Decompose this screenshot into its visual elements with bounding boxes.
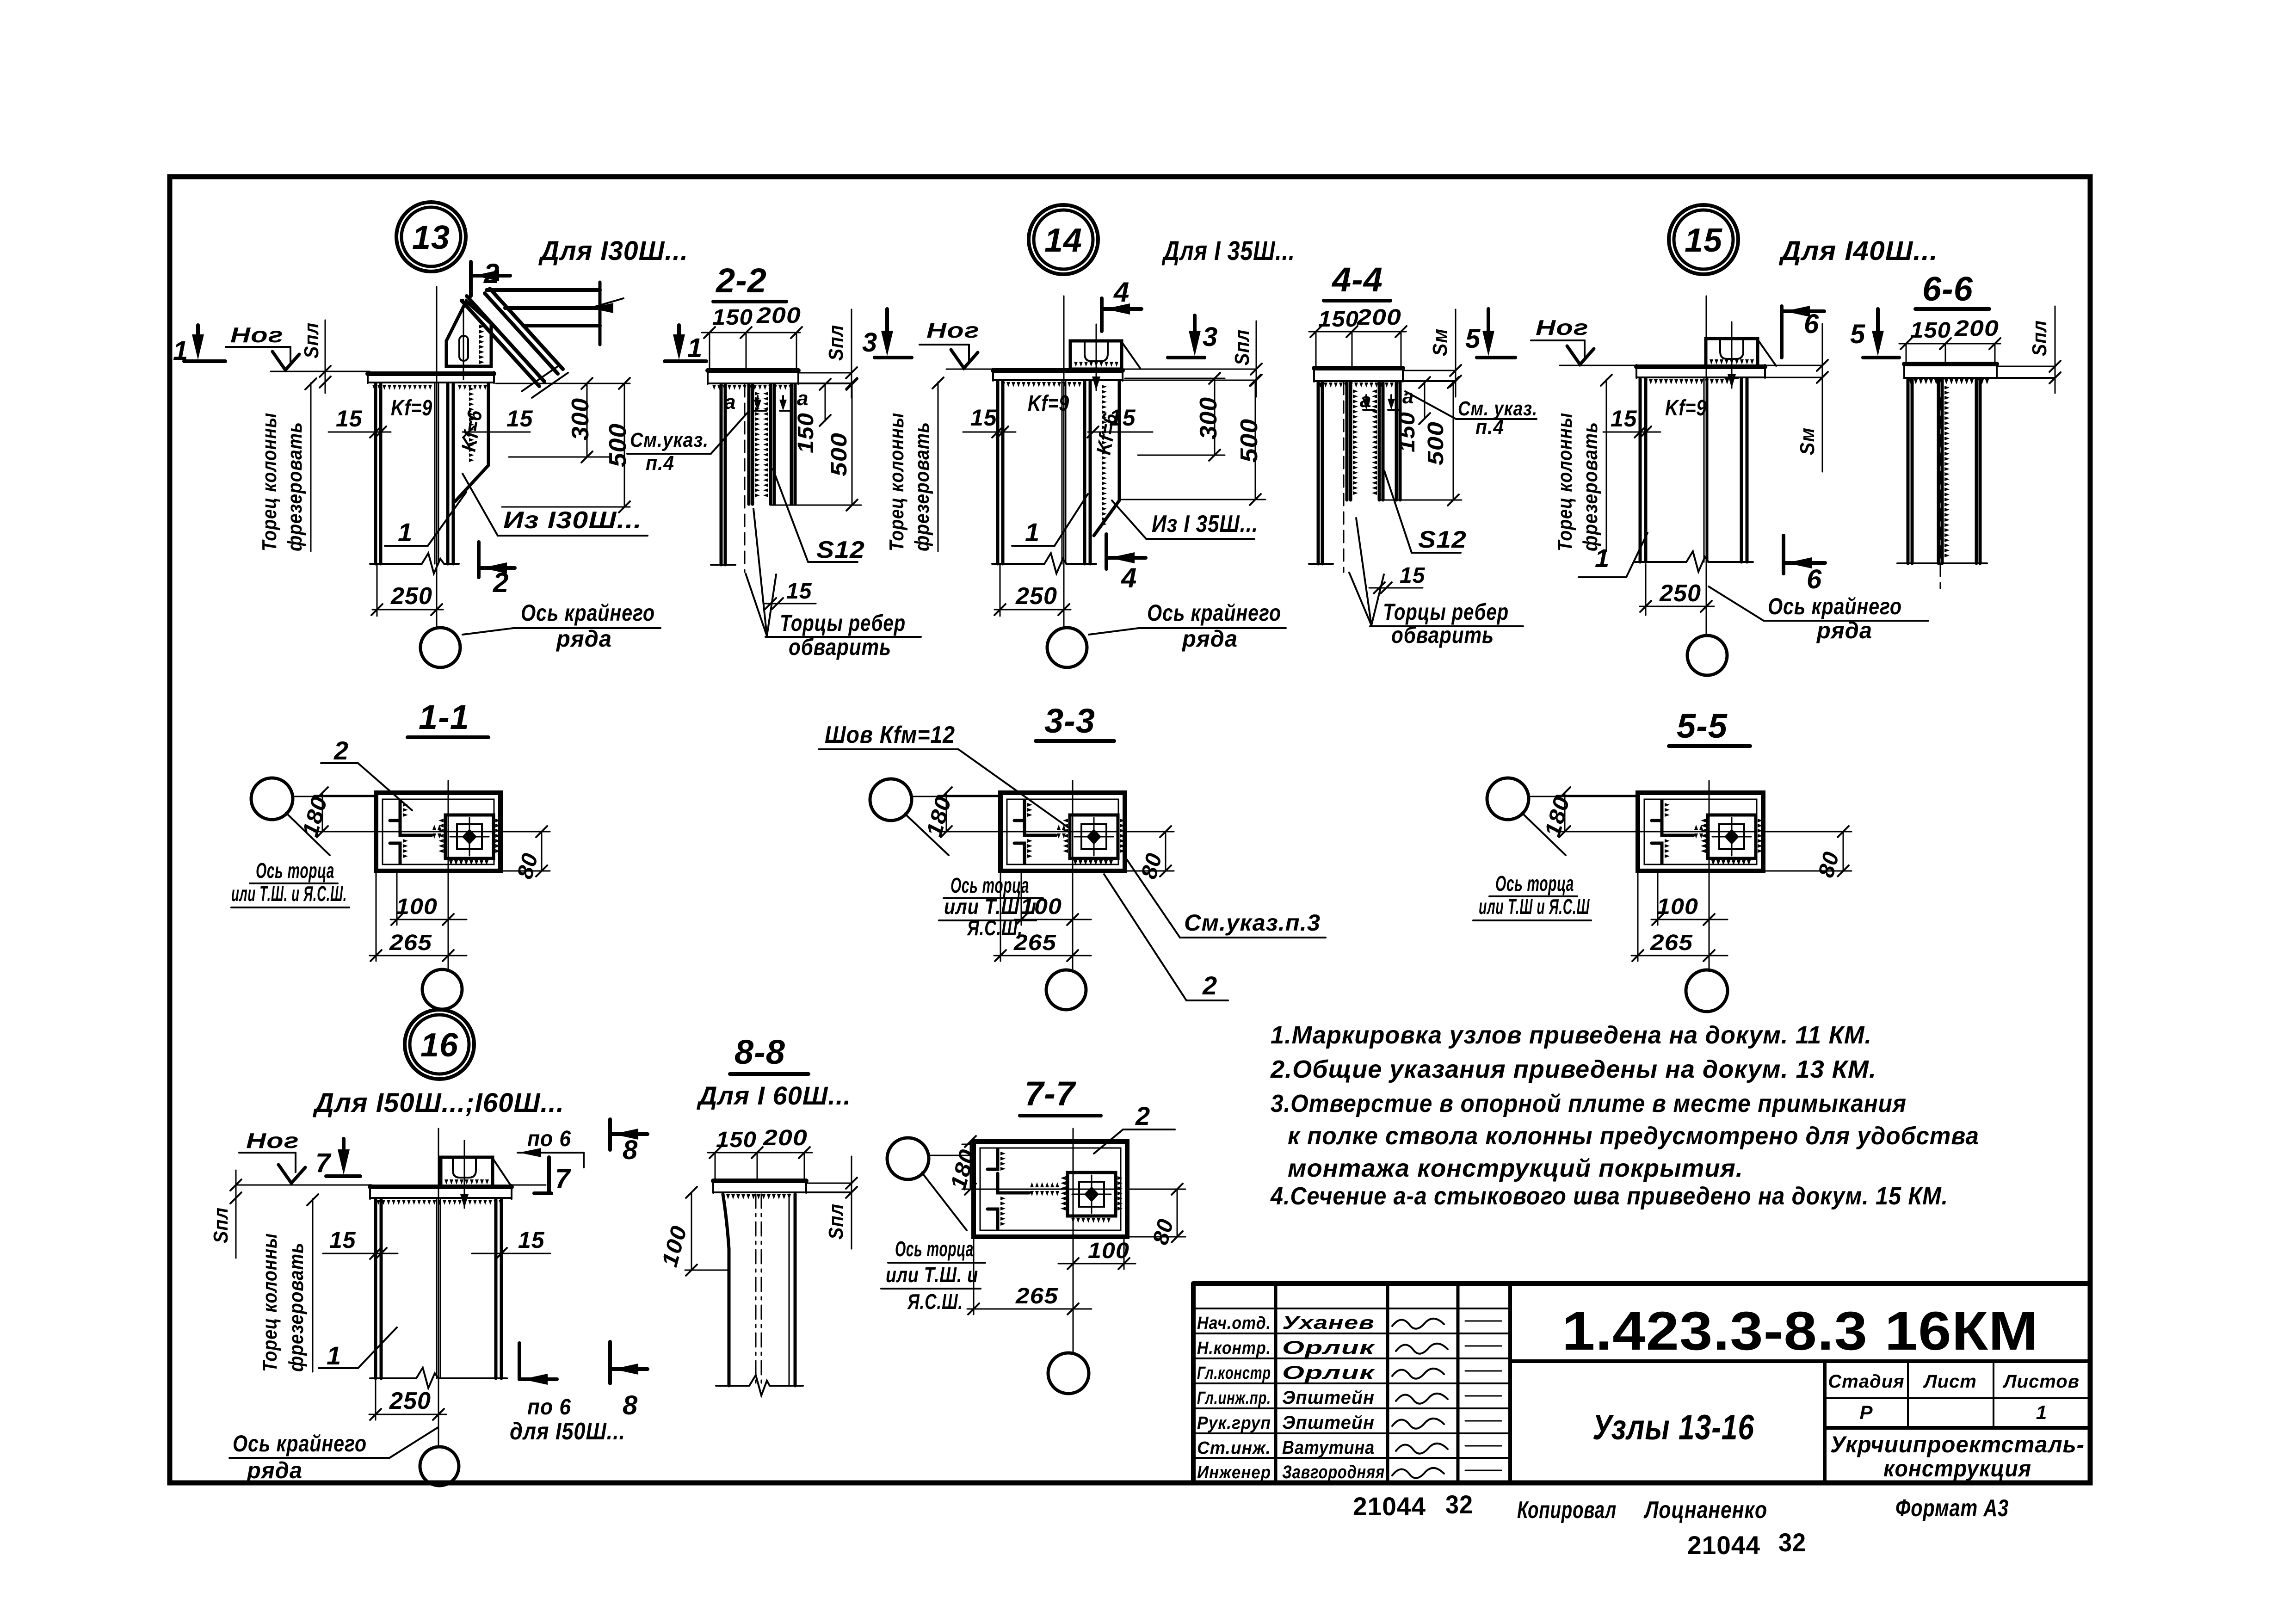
1-1 bolt plate — [445, 815, 494, 858]
svg-text:5: 5 — [1850, 319, 1865, 349]
section mark 1 (left) — [196, 325, 200, 341]
dim 80 — [1177, 1189, 1178, 1237]
section mark 3 (of node 14, left) — [885, 309, 889, 338]
dim 150 — [1424, 383, 1426, 419]
svg-text:к полке ствола колонны предусм: к полке ствола колонны предусмотрено для… — [1288, 1122, 1979, 1150]
section mark 7 (right top) — [547, 1157, 551, 1192]
weld serration — [1909, 379, 1989, 384]
svg-text:250: 250 — [389, 1388, 431, 1414]
svg-text:Ось торца: Ось торца — [256, 858, 334, 882]
svg-text:1: 1 — [1595, 543, 1610, 573]
svg-text:Sпл: Sпл — [825, 1203, 847, 1240]
axis line vertical — [1073, 1129, 1074, 1353]
svg-text:2: 2 — [333, 736, 349, 765]
svg-text:15: 15 — [1685, 222, 1722, 259]
middle rib — [747, 385, 751, 504]
axis circle — [1687, 636, 1727, 675]
svg-text:S12: S12 — [816, 537, 865, 563]
title block outer — [1193, 1281, 2090, 1286]
svg-text:150: 150 — [1318, 307, 1359, 332]
svg-text:2: 2 — [493, 567, 509, 598]
weld serration — [376, 1200, 502, 1205]
svg-text:Kf=9: Kf=9 — [1665, 396, 1707, 420]
svg-text:Ось крайнего: Ось крайнего — [1768, 593, 1902, 619]
axis line vertical — [448, 781, 449, 970]
level line — [946, 369, 995, 370]
svg-text:21044: 21044 — [1353, 1492, 1426, 1521]
svg-text:Торец колонны: Торец колонны — [258, 413, 281, 551]
rib below plate — [1118, 382, 1121, 500]
section mark 2 (bottom) — [477, 542, 481, 577]
stadia list listov — [1825, 1361, 2090, 1428]
svg-text:Sпл: Sпл — [210, 1207, 232, 1243]
svg-text:5: 5 — [1465, 324, 1481, 354]
roof member lines — [487, 288, 600, 292]
dim 500 — [624, 383, 625, 507]
svg-text:Ось торца: Ось торца — [1495, 871, 1574, 895]
svg-text:Торцы ребер: Торцы ребер — [780, 610, 906, 636]
svg-text:6: 6 — [1804, 309, 1819, 339]
svg-text:300: 300 — [1195, 397, 1222, 439]
weld serration under plate — [1001, 382, 1081, 387]
axis circle bottom — [1046, 970, 1086, 1010]
7-7 plan outline — [974, 1142, 1127, 1237]
svg-text:Ось торца: Ось торца — [895, 1237, 974, 1261]
section mark 6 (top) — [1780, 306, 1784, 358]
section mark 2 (top) — [469, 262, 473, 296]
svg-text:Укрчиипроектсталь-: Укрчиипроектсталь- — [1830, 1432, 2085, 1457]
section mark 6 (bottom) — [1782, 536, 1785, 574]
svg-text:4: 4 — [1121, 562, 1137, 593]
5-5 bolt plate — [1708, 815, 1756, 858]
svg-text:Завгородняя: Завгородняя — [1282, 1462, 1385, 1482]
svg-text:300: 300 — [567, 398, 594, 440]
svg-text:1: 1 — [327, 1341, 341, 1370]
node 13 bubble — [396, 202, 466, 272]
svg-text:150: 150 — [716, 1128, 757, 1152]
svg-text:фрезеровать: фрезеровать — [285, 1242, 308, 1372]
svg-text:Kf=9: Kf=9 — [391, 396, 432, 420]
svg-text:Hог: Hог — [246, 1129, 299, 1153]
bearing plate — [370, 1185, 512, 1189]
svg-text:Р: Р — [1859, 1401, 1873, 1423]
svg-text:ряда: ряда — [555, 626, 612, 652]
svg-text:3: 3 — [1203, 322, 1218, 352]
staff table — [1193, 1284, 1510, 1483]
label os torca — [286, 813, 330, 855]
column web — [1062, 382, 1063, 564]
node 14 bubble — [1029, 205, 1098, 274]
svg-text:7-7: 7-7 — [1025, 1074, 1077, 1113]
svg-text:Ватутина: Ватутина — [1282, 1438, 1375, 1458]
gusset weld serration — [479, 325, 484, 364]
7-7 bolt mark — [1084, 1186, 1099, 1202]
svg-text:См.указ.: См.указ. — [630, 429, 709, 451]
svg-text:Орлик: Орлик — [1282, 1363, 1375, 1383]
svg-text:Hог: Hог — [230, 323, 284, 347]
3-3 bolt plate — [1070, 815, 1118, 858]
svg-text:Ось торца: Ось торца — [950, 873, 1029, 897]
svg-text:Торец колонны: Торец колонны — [259, 1233, 281, 1372]
svg-text:15: 15 — [786, 579, 812, 604]
5-5 bolt mark — [1724, 829, 1739, 845]
svg-text:Гл.констр: Гл.констр — [1197, 1364, 1271, 1383]
svg-text:Эпштейн: Эпштейн — [1282, 1413, 1375, 1433]
section mark 1 (right) — [677, 325, 681, 341]
roof member arrow — [590, 303, 613, 313]
svg-text:Для I 35Ш...: Для I 35Ш... — [1161, 236, 1295, 266]
section mark 8 (top) — [608, 1119, 612, 1150]
column outline — [723, 1194, 729, 1386]
label os torca — [905, 814, 949, 855]
dim 250 — [375, 1380, 376, 1420]
svg-text:а: а — [1402, 385, 1414, 408]
svg-text:Лист: Лист — [1923, 1371, 1977, 1392]
svg-text:15: 15 — [1400, 563, 1426, 588]
svg-text:15: 15 — [1611, 406, 1637, 432]
svg-text:2: 2 — [1202, 971, 1217, 1000]
dim 500 — [1453, 383, 1454, 500]
svg-text:Из I30Ш...: Из I30Ш... — [503, 507, 642, 534]
svg-text:5-5: 5-5 — [1677, 707, 1728, 745]
bearing plate — [1636, 364, 1765, 369]
rib at flange — [1907, 379, 1910, 563]
5-5 inner edge — [1644, 799, 1757, 864]
middle rib — [1937, 379, 1940, 563]
hidden rib line (dashed) — [744, 385, 746, 572]
svg-text:Формат А3: Формат А3 — [1895, 1495, 2009, 1522]
svg-text:7: 7 — [555, 1164, 571, 1194]
beam end break mark — [522, 366, 558, 391]
svg-text:Орлик: Орлик — [1282, 1338, 1375, 1358]
column axis — [1706, 296, 1707, 636]
column right flange — [1083, 382, 1086, 564]
svg-text:S12: S12 — [1418, 526, 1467, 553]
column web — [436, 1200, 438, 1378]
svg-text:4-4: 4-4 — [1331, 260, 1383, 299]
svg-text:2.Общие указания приведены на: 2.Общие указания приведены на докум. 13 … — [1270, 1055, 1876, 1083]
svg-text:п.4: п.4 — [646, 452, 674, 475]
dim 250 — [376, 565, 378, 616]
svg-text:фрезеровать: фрезеровать — [1579, 422, 1602, 551]
svg-text:Sпл: Sпл — [825, 325, 847, 361]
dim 500 — [1255, 380, 1256, 500]
1-1 bolt mark — [462, 829, 477, 845]
svg-text:Sм: Sм — [1429, 328, 1451, 356]
1-1 web line — [390, 831, 493, 833]
svg-text:3.Отверстие в опорной плите в: 3.Отверстие в опорной плите в месте прим… — [1271, 1090, 1907, 1117]
svg-text:16: 16 — [420, 1027, 458, 1064]
right edge rib — [790, 385, 793, 504]
column left flange — [374, 384, 377, 564]
svg-text:по 6: по 6 — [527, 1395, 571, 1419]
svg-text:6-6: 6-6 — [1922, 270, 1973, 308]
svg-text:для I50Ш...: для I50Ш... — [510, 1418, 625, 1445]
svg-text:150: 150 — [1910, 318, 1951, 343]
gusset slot hole — [459, 336, 468, 361]
svg-text:Ось крайнего: Ось крайнего — [233, 1431, 367, 1456]
1-1 inner edge — [383, 799, 494, 864]
svg-text:32: 32 — [1445, 1490, 1473, 1519]
3-3 web line — [1014, 831, 1117, 833]
label os torca — [922, 1173, 967, 1230]
svg-text:или Т.Ш. и: или Т.Ш. и — [886, 1263, 978, 1287]
column web — [434, 384, 436, 564]
svg-text:1: 1 — [2036, 1401, 2047, 1423]
svg-text:См.указ.п.3: См.указ.п.3 — [1184, 910, 1321, 936]
date column dashes — [1465, 1321, 1501, 1322]
svg-text:250: 250 — [1659, 580, 1701, 607]
border frame — [170, 177, 2090, 1483]
axis circle — [420, 1447, 459, 1486]
column axis — [438, 1129, 439, 1447]
dim 80 — [1843, 832, 1844, 871]
svg-text:500: 500 — [605, 423, 631, 467]
svg-text:500: 500 — [1424, 421, 1448, 465]
svg-text:Для I30Ш...: Для I30Ш... — [538, 236, 688, 266]
column bottom edge + break — [370, 563, 422, 565]
svg-text:обварить: обварить — [789, 634, 891, 660]
second rib — [769, 385, 772, 504]
column axis — [1063, 296, 1065, 627]
right rib — [1975, 379, 1978, 563]
dim 180 — [1564, 793, 1566, 832]
inclined beam bottom flange — [462, 301, 539, 386]
svg-text:Нач.отд.: Нач.отд. — [1197, 1314, 1271, 1333]
dim 250 — [1645, 564, 1647, 615]
axis line vertical — [1709, 781, 1710, 971]
svg-text:Ст.инж.: Ст.инж. — [1197, 1438, 1271, 1458]
saddle block — [1070, 341, 1122, 369]
svg-text:15: 15 — [518, 1227, 545, 1253]
svg-text:Из I 35Ш...: Из I 35Ш... — [1152, 511, 1258, 537]
plate section — [1314, 366, 1403, 370]
rib at flange — [1317, 383, 1320, 564]
svg-text:Торец колонны: Торец колонны — [885, 413, 908, 551]
bottom + break — [716, 1385, 749, 1387]
bottom edge — [1897, 562, 1987, 564]
column axis line — [436, 287, 438, 627]
svg-text:ряда: ряда — [246, 1457, 302, 1483]
po 6 / dlya I50Sh (bottom) — [518, 1343, 521, 1379]
plate section — [1904, 362, 1997, 366]
svg-text:200: 200 — [1357, 305, 1401, 330]
weld serration — [1644, 379, 1729, 384]
svg-text:а: а — [797, 387, 809, 410]
5-5 plan outline — [1638, 793, 1763, 871]
svg-text:150: 150 — [794, 413, 818, 453]
svg-text:Ось крайнего: Ось крайнего — [1147, 600, 1281, 626]
svg-text:15: 15 — [329, 1227, 356, 1253]
svg-text:6: 6 — [1807, 564, 1822, 594]
level line — [236, 1185, 372, 1186]
axis circle bottom — [1048, 1353, 1089, 1394]
rib at flange (full height) — [720, 385, 723, 565]
dim 300 — [586, 383, 588, 457]
web dashed — [755, 1194, 757, 1386]
svg-text:200: 200 — [763, 1126, 808, 1150]
svg-text:265: 265 — [1650, 931, 1693, 955]
right edge rib — [1395, 383, 1398, 500]
1-1 plan outline — [376, 793, 500, 871]
dim 80 — [1165, 832, 1167, 871]
svg-text:21044: 21044 — [1687, 1530, 1760, 1560]
svg-text:Я.С.Ш.: Я.С.Ш. — [967, 916, 1023, 940]
section mark 4 (bottom) — [1105, 534, 1108, 569]
saddle block — [1706, 339, 1758, 367]
dim 150 (ribs) — [825, 384, 826, 420]
svg-text:15: 15 — [970, 405, 997, 431]
7-7 web line — [988, 1189, 1120, 1190]
svg-text:2: 2 — [483, 258, 500, 289]
column bottom + break — [1635, 561, 1686, 563]
svg-text:2-2: 2-2 — [715, 261, 767, 300]
inclined beam top flange — [485, 293, 558, 374]
plate section — [708, 368, 798, 373]
grid circle left — [887, 1138, 929, 1179]
column bottom + break — [370, 1377, 416, 1379]
svg-text:3: 3 — [862, 327, 877, 358]
weld serration under plate — [372, 385, 432, 390]
3-3 plan outline — [1000, 793, 1125, 871]
svg-text:Hог: Hог — [1536, 315, 1589, 339]
svg-text:Для I 60Ш...: Для I 60Ш... — [697, 1081, 851, 1110]
svg-text:265: 265 — [1015, 1284, 1058, 1308]
column bottom edge + break — [992, 563, 1044, 565]
3-3 bolt mark — [1086, 829, 1101, 845]
column right flange — [1740, 379, 1743, 562]
grid circle left — [870, 779, 912, 821]
7-7 inner edge — [980, 1148, 1121, 1230]
svg-text:Sпл: Sпл — [300, 322, 323, 358]
svg-text:15: 15 — [336, 406, 363, 432]
level line Hог — [271, 371, 370, 372]
5-5 web line — [1652, 831, 1756, 833]
svg-text:250: 250 — [1015, 583, 1057, 610]
svg-text:1: 1 — [173, 336, 188, 366]
svg-text:Для I50Ш...;I60Ш...: Для I50Ш...;I60Ш... — [312, 1088, 564, 1118]
label os torca — [1522, 813, 1566, 855]
dim 300/500 ext lines — [1125, 378, 1225, 379]
svg-text:1.423.3-8.3 16КМ: 1.423.3-8.3 16КМ — [1562, 1301, 2038, 1362]
node 15 bubble — [1669, 205, 1738, 274]
svg-text:8: 8 — [623, 1135, 638, 1165]
weld serration — [726, 1194, 791, 1199]
svg-text:Инженер: Инженер — [1197, 1463, 1271, 1482]
svg-text:500: 500 — [1236, 419, 1263, 463]
column web — [1703, 379, 1705, 562]
axis line vertical — [1072, 781, 1074, 970]
doc number cell — [1510, 1284, 2090, 1361]
dim 300/500 extension lines — [496, 383, 630, 384]
svg-text:265: 265 — [389, 931, 432, 955]
svg-text:Hог: Hог — [926, 318, 980, 342]
section mark 3 (right) — [1193, 315, 1197, 338]
svg-text:4: 4 — [1113, 277, 1129, 308]
bolt axis in gusset — [463, 300, 464, 379]
svg-text:3-3: 3-3 — [1044, 702, 1095, 740]
axis circle — [420, 628, 460, 667]
svg-text:Листов: Листов — [2002, 1371, 2080, 1392]
svg-text:Рук.груп: Рук.груп — [1197, 1413, 1271, 1433]
1-1 flange section left — [390, 800, 400, 821]
svg-text:Стадия: Стадия — [1828, 1371, 1904, 1392]
svg-text:фрезеровать: фрезеровать — [911, 422, 933, 551]
axis circle bottom — [422, 969, 462, 1009]
uzly cell — [1510, 1361, 1825, 1483]
svg-text:Kf=9: Kf=9 — [1028, 391, 1069, 416]
rib below plate (right) — [487, 384, 490, 465]
axis circle — [1047, 628, 1087, 667]
dim 180 — [946, 793, 947, 832]
section mark 8 (bottom) — [608, 1342, 612, 1383]
svg-text:200: 200 — [756, 303, 801, 328]
svg-text:Копировал: Копировал — [1517, 1497, 1617, 1524]
svg-text:8: 8 — [623, 1390, 638, 1420]
svg-text:или Т.Ш и Я.С.Ш: или Т.Ш и Я.С.Ш — [1479, 895, 1590, 919]
bearing plate — [368, 371, 494, 376]
3-3 inner edge — [1007, 799, 1118, 864]
svg-text:1.Маркировка узлов приведена н: 1.Маркировка узлов приведена на докум. 1… — [1271, 1021, 1872, 1049]
org cell — [1825, 1428, 2090, 1483]
saddle block — [441, 1157, 493, 1187]
7-7 bolt plate — [1068, 1173, 1116, 1216]
level line — [1560, 365, 1638, 366]
grid circle left — [251, 778, 293, 820]
svg-text:Эпштейн: Эпштейн — [1282, 1388, 1375, 1408]
svg-text:1: 1 — [398, 518, 413, 547]
svg-text:Торец колонны: Торец колонны — [1554, 413, 1576, 551]
svg-text:200: 200 — [1954, 316, 1999, 341]
plate — [713, 1179, 806, 1183]
grid circle left — [1487, 778, 1529, 820]
section mark 5 (left of node15) — [1487, 309, 1490, 338]
second rib — [1378, 383, 1381, 500]
middle rib — [1346, 383, 1349, 500]
svg-text:15: 15 — [506, 406, 533, 432]
dim 500 (ribs) — [852, 384, 853, 505]
svg-text:Sм: Sм — [1796, 427, 1819, 455]
axis circle bottom — [1686, 970, 1728, 1012]
svg-text:1: 1 — [1025, 518, 1040, 547]
svg-text:150: 150 — [712, 305, 753, 330]
svg-text:Торцы ребер: Торцы ребер — [1383, 599, 1509, 625]
svg-text:Для I40Ш...: Для I40Ш... — [1778, 236, 1938, 266]
dim 180 — [322, 793, 323, 832]
svg-text:Sпл: Sпл — [2028, 320, 2051, 356]
svg-text:Н.контр.: Н.контр. — [1197, 1339, 1271, 1358]
hidden rib (dashed) — [1343, 383, 1345, 572]
svg-text:15: 15 — [1109, 405, 1136, 431]
svg-text:250: 250 — [390, 583, 432, 610]
svg-text:Я.С.Ш.: Я.С.Ш. — [907, 1290, 963, 1314]
svg-text:Sпл: Sпл — [1231, 329, 1253, 365]
7-7 flange section left — [988, 1149, 998, 1169]
weld serration under plate — [712, 385, 792, 390]
svg-text:монтажа конструкций покрытия.: монтажа конструкций покрытия. — [1288, 1154, 1743, 1182]
svg-text:32: 32 — [1778, 1528, 1806, 1557]
svg-text:Уханев: Уханев — [1282, 1313, 1375, 1333]
dim 180 — [970, 1142, 971, 1189]
svg-text:1-1: 1-1 — [419, 698, 469, 736]
svg-text:Ось крайнего: Ось крайнего — [521, 600, 655, 626]
svg-text:по 6: по 6 — [527, 1127, 571, 1151]
svg-text:Гл.инж.пр.: Гл.инж.пр. — [1197, 1388, 1271, 1408]
svg-text:фрезеровать: фрезеровать — [284, 422, 306, 551]
svg-text:конструкция: конструкция — [1883, 1456, 2031, 1481]
svg-text:а: а — [724, 391, 736, 413]
dim 80 — [541, 832, 543, 871]
